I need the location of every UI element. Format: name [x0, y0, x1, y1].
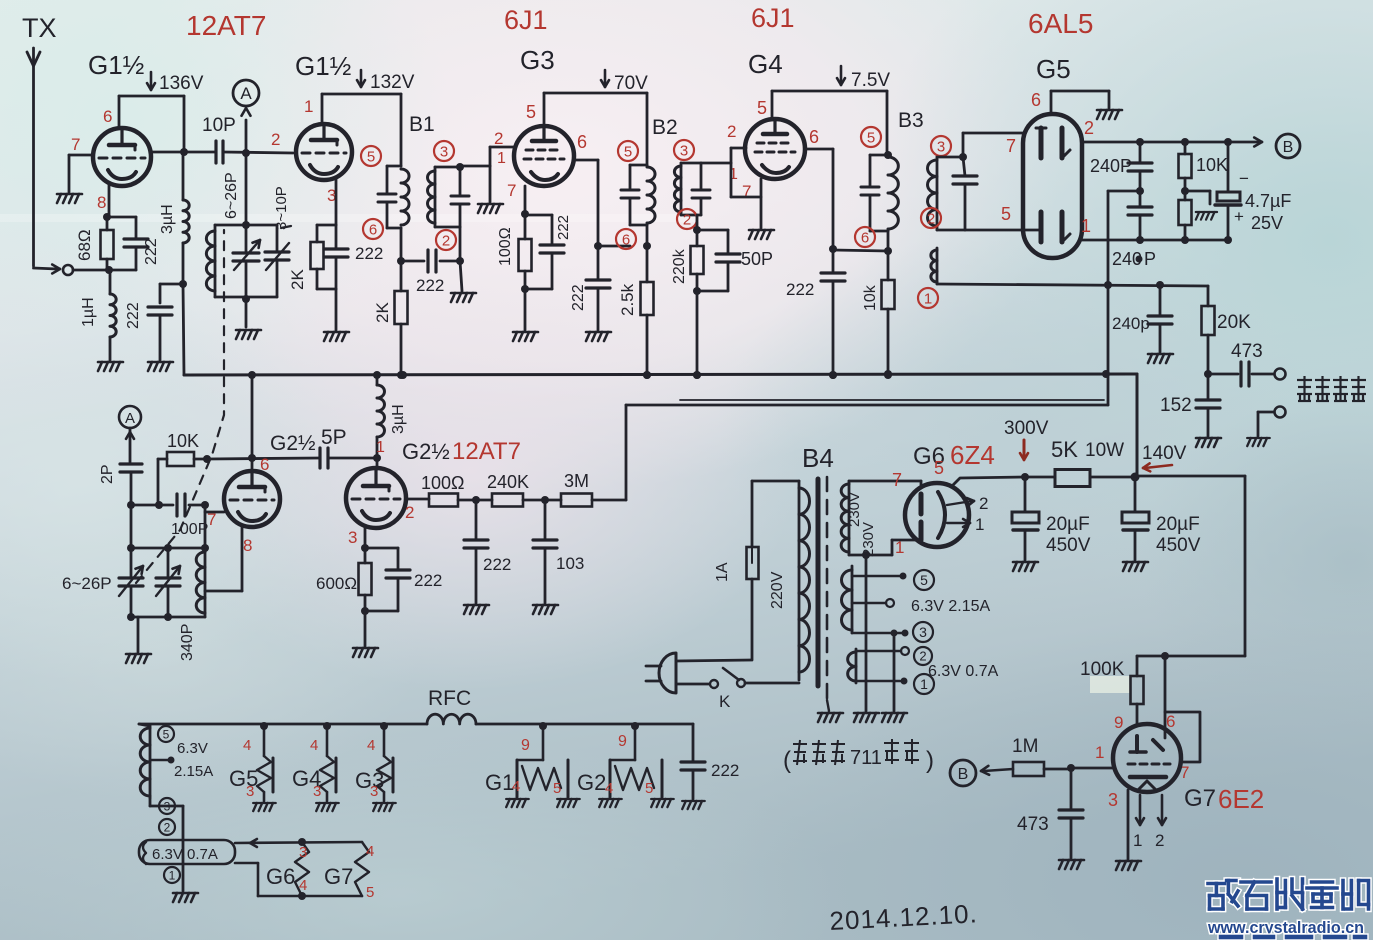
node A terminal (top) — [245, 120, 248, 152]
svg-text:222: 222 — [143, 238, 160, 265]
svg-text:1: 1 — [975, 515, 984, 534]
svg-text:240K: 240K — [487, 472, 529, 492]
svg-text:9: 9 — [521, 737, 530, 754]
B1 secondary tuning cap — [459, 167, 462, 196]
svg-text:TX: TX — [22, 13, 57, 43]
wire band to G6 G7 heater loop — [235, 842, 362, 843]
tap 1 — [856, 680, 900, 683]
B4 core — [816, 479, 821, 686]
svg-text:6: 6 — [861, 229, 869, 246]
resistor 68 ohm — [106, 217, 109, 230]
svg-text:5: 5 — [624, 143, 632, 160]
svg-text:711: 711 — [850, 747, 882, 769]
wire to G5 pin5 — [937, 229, 965, 232]
ground G3 cathode — [513, 332, 538, 341]
ground G5 heater — [253, 803, 276, 811]
resistor 600 ohm — [364, 548, 367, 563]
svg-text:222: 222 — [555, 215, 572, 240]
ground G1a grid — [57, 194, 82, 203]
wire mid node to AVC line — [1108, 190, 1140, 193]
svg-text:132V: 132V — [370, 72, 415, 93]
svg-text:3: 3 — [919, 624, 927, 640]
B3 primary tuning cap — [869, 155, 872, 187]
B3 node 6 (red) — [855, 227, 875, 247]
svg-text:G1: G1 — [485, 770, 514, 795]
heater arrows pins 1 2 — [1139, 795, 1142, 822]
svg-text:2: 2 — [683, 211, 691, 228]
svg-text:4: 4 — [310, 737, 318, 754]
ground 152 — [1196, 438, 1221, 447]
svg-text:5: 5 — [920, 572, 928, 588]
svg-text:5: 5 — [757, 98, 767, 118]
B3 node 1 (red) — [918, 288, 938, 308]
ground B1 — [451, 293, 476, 302]
svg-text:5: 5 — [553, 780, 561, 797]
ground 103 — [533, 605, 558, 614]
capacitor 240p to ground — [1159, 285, 1162, 316]
svg-text:68Ω: 68Ω — [75, 229, 94, 261]
main horizontal bus — [184, 374, 1137, 375]
svg-text:7: 7 — [71, 135, 80, 154]
svg-text:2: 2 — [1084, 118, 1094, 138]
svg-text:12AT7: 12AT7 — [452, 438, 521, 465]
watermark partial bottom row — [1218, 934, 1244, 940]
svg-text:G6: G6 — [266, 864, 295, 889]
ground G7 cathode — [1116, 861, 1141, 870]
svg-text:B: B — [958, 766, 969, 783]
svg-text:2K: 2K — [288, 269, 307, 290]
svg-text:4: 4 — [366, 843, 374, 860]
capacitor 222 (cathode bypass) — [107, 216, 136, 219]
svg-text:600Ω: 600Ω — [316, 574, 357, 593]
svg-text:6.3V 2.15A: 6.3V 2.15A — [911, 598, 991, 615]
B4 heater winding 6.3V 2.15A — [851, 566, 854, 633]
svg-text:230V: 230V — [860, 522, 877, 557]
ground tank — [236, 330, 261, 339]
ground tap3 — [882, 713, 907, 722]
svg-text:1: 1 — [1095, 743, 1104, 762]
B3 secondary tuning cap — [963, 157, 965, 176]
svg-text:6J1: 6J1 — [751, 3, 795, 33]
grid wire B2 to G4 — [701, 162, 731, 165]
heater G7 zigzag — [355, 842, 369, 896]
heater G1 — [539, 722, 547, 730]
choke RFC — [427, 714, 476, 724]
tap 2 — [856, 650, 901, 653]
resistor 10K (osc grid) — [131, 504, 158, 507]
heater winding 6.3V 2.15A — [139, 724, 150, 726]
svg-text:5: 5 — [163, 727, 170, 741]
svg-text:100K: 100K — [1080, 659, 1125, 680]
svg-text:20µF: 20µF — [1156, 514, 1200, 535]
wire B1 sec bottom to ground — [459, 227, 462, 261]
oscillator tank 6~26P (top) — [245, 153, 248, 225]
tap 3 — [852, 632, 905, 635]
inductor 1uH to ground — [109, 270, 112, 294]
wire 220k to bus — [696, 291, 699, 375]
capacitor 50P — [697, 229, 728, 232]
wire B2 sec bottom node — [696, 215, 699, 230]
svg-text:6.3V: 6.3V — [152, 846, 183, 863]
capacitor 240P second — [1128, 205, 1152, 208]
svg-text:222: 222 — [570, 284, 587, 311]
label 136V with arrow — [150, 72, 153, 89]
inductor 3uH on B+ dropper line — [182, 152, 185, 200]
wire grid to 1M — [1071, 767, 1113, 770]
output terminal lower — [1275, 407, 1286, 418]
svg-text:G2: G2 — [577, 770, 606, 795]
heater bus — [139, 723, 427, 726]
wire node to ground stub — [1185, 190, 1210, 193]
svg-text:A: A — [125, 410, 135, 427]
svg-text:−: − — [1239, 169, 1249, 188]
B4 primary winding 220V — [798, 481, 801, 680]
svg-text:2: 2 — [979, 494, 988, 513]
svg-text:B1: B1 — [409, 113, 435, 136]
svg-text:2: 2 — [919, 649, 926, 664]
terminal 2 circled — [914, 647, 932, 665]
svg-text:4: 4 — [512, 778, 520, 795]
svg-text:100P: 100P — [171, 521, 208, 538]
svg-text:G1½: G1½ — [88, 50, 144, 80]
svg-text:3: 3 — [1108, 790, 1118, 810]
heater G2 — [631, 722, 639, 730]
B2 primary tuning cap — [629, 165, 632, 190]
resistor 220k (grid leak G4) — [696, 230, 699, 246]
ground 20uF first — [1013, 562, 1038, 571]
svg-text:7.5V: 7.5V — [851, 70, 890, 91]
wire pin7 G2a — [205, 511, 224, 514]
B1 node 6 (red) — [363, 219, 383, 239]
ground G3 heater — [373, 803, 396, 811]
capacitor 222 (B1 decoupling) — [401, 260, 424, 263]
grid return stub to ground — [489, 166, 492, 202]
svg-text:1: 1 — [1081, 216, 1091, 236]
arrows heater pins — [947, 501, 972, 505]
wire 10P to node A — [223, 152, 293, 153]
wire terminal to cathode node — [73, 269, 136, 272]
HV centre tap to ground — [865, 555, 868, 711]
resistor 3M — [561, 494, 592, 507]
pins 6-7 loop — [1165, 712, 1200, 762]
svg-text:220V: 220V — [769, 571, 786, 609]
ground G5 pin6 — [1097, 110, 1122, 119]
wire B3 primary bottom junction — [887, 231, 890, 251]
AVC return line — [626, 404, 1108, 407]
svg-text:1: 1 — [895, 538, 904, 557]
capacitor 2P — [120, 462, 142, 465]
ground 222 — [464, 605, 489, 614]
wire bus down to G2a grid — [251, 375, 254, 470]
svg-text:3: 3 — [348, 528, 357, 547]
svg-text:2.15A: 2.15A — [174, 763, 213, 780]
heater G3 — [380, 722, 388, 730]
B4 heater winding 6.3V 0.7A — [855, 649, 858, 683]
B1 primary winding — [387, 165, 401, 168]
svg-text:3µH: 3µH — [390, 404, 407, 434]
capacitor 10P coupling — [214, 141, 217, 163]
svg-text:3M: 3M — [564, 471, 589, 491]
svg-text:2: 2 — [271, 130, 280, 149]
svg-text:6~26P: 6~26P — [62, 574, 112, 593]
capacitor 5P — [318, 448, 321, 468]
ground heater winding — [173, 893, 198, 902]
wire down to main bus — [183, 284, 184, 375]
svg-text:340P: 340P — [179, 624, 196, 661]
svg-text:5: 5 — [867, 129, 875, 146]
capacitor 4.7uF electrolytic — [1227, 142, 1230, 192]
svg-text:473: 473 — [1017, 814, 1049, 835]
wire to 240K — [458, 499, 492, 502]
svg-text:20K: 20K — [1217, 312, 1251, 333]
AC plug — [659, 653, 676, 693]
svg-text:220k: 220k — [671, 248, 688, 284]
svg-text:G2½: G2½ — [402, 439, 450, 464]
ground 20uF second — [1123, 562, 1148, 571]
svg-text:G5: G5 — [1036, 54, 1071, 84]
svg-text:222: 222 — [355, 244, 383, 263]
svg-text:3: 3 — [370, 783, 378, 800]
svg-text:10K: 10K — [167, 431, 199, 451]
B3 primary winding — [870, 154, 888, 157]
tube G6 6Z4 rectifier — [905, 483, 969, 547]
cathode G4 to ground — [760, 179, 763, 228]
svg-text:50P: 50P — [741, 249, 773, 269]
svg-text:230V: 230V — [846, 492, 863, 527]
svg-text:5: 5 — [1001, 204, 1011, 224]
ground 240p — [1148, 354, 1173, 363]
B2 node 3 (red) — [674, 140, 694, 160]
svg-text:5: 5 — [934, 458, 944, 478]
wire G5 pin1 bottom rail — [1082, 239, 1228, 242]
label to pickup (chinese) — [1297, 376, 1312, 401]
capacitor 473 to output — [1208, 373, 1238, 376]
resistor 5K 10W — [1025, 476, 1055, 479]
svg-text:8: 8 — [97, 193, 106, 212]
svg-text:3: 3 — [680, 142, 688, 159]
wire 140V to 6E2 stage — [1135, 475, 1245, 478]
capacitor 103 (audio filter 2) — [544, 500, 547, 540]
svg-text:450V: 450V — [1156, 535, 1201, 556]
svg-text:7: 7 — [507, 181, 516, 200]
svg-text:4: 4 — [243, 737, 251, 754]
svg-text:3: 3 — [299, 844, 307, 861]
label 7.5V with arrow — [840, 66, 843, 84]
wire switch to primary — [745, 682, 799, 685]
resistor 100 ohm (G3 cathode) — [524, 214, 527, 239]
svg-text:1: 1 — [920, 676, 928, 692]
svg-text:136V: 136V — [159, 73, 204, 94]
svg-text:5K: 5K — [1051, 437, 1078, 462]
svg-text:9: 9 — [618, 733, 627, 750]
svg-text:6E2: 6E2 — [1218, 784, 1264, 814]
svg-text:12AT7: 12AT7 — [186, 10, 266, 41]
terminal 5 circled — [158, 726, 174, 742]
resistor 100 ohm (plate) — [406, 498, 429, 501]
resistor 1M — [1013, 762, 1044, 776]
variable capacitor 6~26P (osc) — [119, 576, 143, 579]
ground G2 heater right — [651, 799, 674, 807]
ground 1uH — [98, 362, 123, 371]
node B terminal (top) — [1276, 134, 1300, 158]
grid stub to cathode — [730, 163, 733, 197]
capacitor 222 (audio filter 1) — [475, 500, 478, 540]
bus corner down to 140V node — [1136, 374, 1139, 477]
svg-text:2: 2 — [494, 129, 503, 148]
svg-text:4: 4 — [605, 780, 613, 797]
svg-text:222: 222 — [786, 280, 814, 299]
svg-text:G7: G7 — [1184, 785, 1216, 812]
node B terminal (bottom) — [950, 760, 976, 786]
svg-text:4: 4 — [299, 877, 307, 894]
wire node to 222 cap — [160, 283, 183, 286]
svg-text:222: 222 — [414, 571, 442, 590]
svg-text:2.5k: 2.5k — [618, 283, 637, 316]
ground G2b cathode — [353, 648, 378, 657]
resistor 10k (B3 dropper) — [887, 251, 890, 280]
ground output — [1247, 438, 1270, 446]
svg-text:1µH: 1µH — [80, 297, 97, 327]
svg-text:6.3V: 6.3V — [177, 740, 208, 757]
wire B3 sec top to G5 pin7 — [937, 156, 963, 159]
ground G2 heater left — [599, 799, 622, 807]
tank top wire — [130, 505, 133, 548]
svg-text:G7: G7 — [324, 864, 353, 889]
resistor 2K (B1 dropper) — [400, 261, 403, 291]
osc tank mid-left — [204, 505, 207, 548]
cathode G1b network — [335, 179, 338, 225]
capacitor 222 (G4 plate decoupling) — [832, 249, 835, 273]
svg-text:P: P — [1144, 249, 1156, 269]
svg-text:7: 7 — [1006, 136, 1016, 156]
ground G1 heater left — [506, 799, 529, 807]
svg-text:222: 222 — [483, 555, 511, 574]
svg-text:222: 222 — [125, 302, 142, 329]
heater G5 — [260, 722, 268, 730]
svg-text:6: 6 — [809, 127, 819, 147]
svg-text:1: 1 — [304, 97, 313, 116]
svg-text:3: 3 — [164, 799, 171, 813]
svg-text:): ) — [926, 747, 934, 774]
svg-text:9: 9 — [1114, 713, 1123, 732]
ground G3 grid — [478, 204, 503, 213]
wire B2 primary to 2.5K dropper — [646, 225, 649, 246]
svg-text:2K: 2K — [373, 302, 392, 323]
grid line to G2a — [207, 458, 320, 459]
svg-text:450V: 450V — [1046, 535, 1091, 556]
heater winding 6.3V 0.7A band — [139, 840, 235, 864]
svg-text:1: 1 — [169, 868, 176, 882]
B1 secondary winding — [434, 167, 437, 227]
svg-text:G2½: G2½ — [270, 432, 316, 455]
svg-text:1: 1 — [1133, 831, 1142, 850]
svg-text:K: K — [719, 692, 731, 711]
capacitor 222 (G1b cathode) — [335, 225, 338, 249]
capacitor 240P first — [1139, 142, 1142, 163]
tank bottom wire + ground — [215, 296, 277, 299]
resistor 10K (lower) — [1184, 191, 1187, 200]
svg-text:(: ( — [783, 747, 791, 774]
terminal 2 circled — [159, 819, 175, 835]
svg-text:1A: 1A — [714, 562, 731, 582]
ground HV ct — [854, 713, 879, 722]
svg-text:6: 6 — [577, 132, 587, 152]
svg-text:5: 5 — [645, 780, 653, 797]
svg-text:6: 6 — [260, 455, 269, 474]
resistor 240K — [492, 494, 523, 507]
B3 tertiary winding — [936, 248, 939, 284]
B1 node 3 (red) — [434, 141, 454, 161]
trimmer 340P — [156, 576, 180, 579]
wire HV bottom to G6 plate pin1 — [849, 554, 892, 557]
ground osc tank — [126, 654, 151, 663]
B2 secondary tuning cap — [700, 163, 703, 190]
svg-text:6Z4: 6Z4 — [950, 440, 995, 470]
tube G2 second half (audio) — [346, 468, 406, 528]
ground G4 cathode — [749, 230, 774, 239]
resistor 20K — [1207, 286, 1210, 306]
svg-text:5: 5 — [526, 102, 536, 122]
B3 node 2 (red) — [921, 208, 941, 228]
wire to ground G3 cathode — [525, 288, 552, 291]
label 132V with arrow — [360, 70, 363, 86]
wire winding to ground — [149, 798, 152, 806]
svg-text:8: 8 — [243, 536, 252, 555]
wire 5P to G2b grid — [328, 457, 377, 460]
svg-text:2: 2 — [1155, 831, 1164, 850]
ground core — [827, 700, 829, 711]
cathode G2b network — [364, 527, 367, 548]
capacitor 20uF 450V first — [1024, 477, 1027, 512]
svg-text:10K: 10K — [1196, 155, 1228, 175]
svg-text:+: + — [1234, 207, 1244, 226]
svg-text:2: 2 — [164, 820, 171, 834]
svg-text:2: 2 — [927, 210, 935, 227]
tap 5 — [852, 575, 903, 578]
svg-text:70V: 70V — [614, 73, 648, 94]
wire plate supply G3 to 70V — [543, 93, 546, 126]
wire to ground — [364, 611, 367, 646]
B1 primary tuning cap — [386, 166, 389, 194]
svg-text:6J1: 6J1 — [504, 5, 548, 35]
tube G2 first half (osc) — [224, 471, 280, 527]
svg-text:B4: B4 — [802, 443, 834, 473]
wire grid G1a (pin7) to ground — [69, 154, 93, 157]
svg-text:5: 5 — [367, 148, 375, 165]
svg-text:3: 3 — [440, 143, 448, 160]
wire G5 pin2 output to B — [1082, 141, 1258, 144]
B2 node 2 (red) — [677, 209, 697, 229]
svg-text:1: 1 — [924, 290, 932, 307]
svg-text:B: B — [1283, 139, 1294, 156]
capacitor 222 (G2b cathode) — [365, 547, 398, 550]
svg-text:240p: 240p — [1112, 314, 1150, 333]
svg-text:6: 6 — [1031, 90, 1041, 110]
svg-text:10k: 10k — [862, 284, 879, 311]
wire G6 cathode output 300V — [951, 477, 1025, 487]
tank bottom wire — [131, 616, 205, 619]
wire arrow to node B — [984, 769, 1013, 771]
svg-text:6~26P: 6~26P — [223, 172, 240, 219]
resistor 100K — [1136, 656, 1139, 676]
svg-text:A: A — [240, 84, 252, 103]
G5 diode electrodes — [1039, 128, 1044, 158]
resistor 2K (G1b cathode) — [317, 224, 336, 227]
antenna input terminal — [63, 265, 73, 275]
ground 222 G3 plate — [586, 332, 611, 341]
wire plate G1a to +136V rail — [118, 96, 121, 128]
B2 node 6 (red) — [616, 229, 636, 249]
